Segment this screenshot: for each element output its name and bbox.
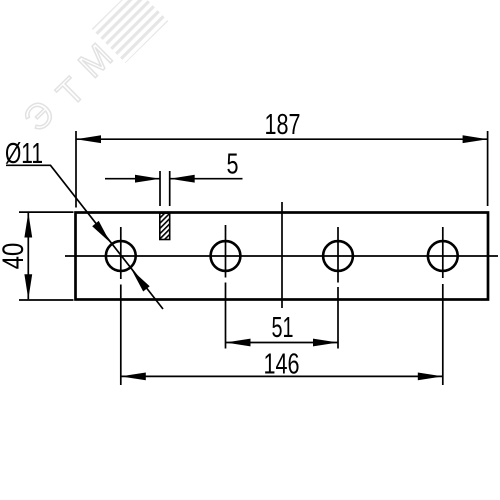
hole 1 bbox=[106, 241, 136, 271]
slot hatched bar bbox=[160, 213, 170, 239]
leader arrows bbox=[92, 221, 110, 243]
svg-text:51: 51 bbox=[272, 312, 294, 344]
dim 146 line bbox=[121, 375, 443, 377]
dim 146 arrows bbox=[121, 373, 146, 381]
dim 51 line bbox=[226, 342, 339, 344]
svg-text:40: 40 bbox=[0, 243, 30, 270]
hole 2 centerline bbox=[225, 225, 227, 349]
hole 3 bbox=[323, 241, 353, 271]
dim 51 arrows bbox=[226, 339, 251, 347]
middle centerline bbox=[281, 202, 283, 308]
dim 187 line bbox=[76, 138, 488, 140]
svg-text:146: 146 bbox=[264, 348, 300, 380]
plate outline bbox=[76, 213, 489, 300]
hole 4 bbox=[428, 241, 458, 271]
svg-text:Ø11: Ø11 bbox=[5, 138, 43, 170]
dim 40 arrows bbox=[24, 213, 32, 238]
leader Ø11 bbox=[6, 165, 163, 309]
dim 40 line bbox=[27, 213, 29, 300]
horizontal centerline bbox=[65, 255, 498, 257]
watermark ЭТМ logo bbox=[15, 0, 168, 139]
svg-text:5: 5 bbox=[227, 149, 239, 181]
dim 187 extension lines bbox=[75, 131, 77, 208]
hole 2 bbox=[211, 241, 241, 271]
dim 5 arrows bbox=[135, 175, 160, 183]
svg-text:187: 187 bbox=[265, 109, 301, 141]
dim 40 extension lines bbox=[19, 211, 74, 213]
hole 3 centerline bbox=[337, 227, 339, 349]
dim 187 arrows bbox=[76, 135, 101, 143]
dim 5 lines bbox=[105, 178, 160, 180]
hole 1 centerline bbox=[120, 227, 122, 385]
hole 4 centerline bbox=[442, 227, 444, 385]
slot extension lines bbox=[159, 171, 161, 206]
